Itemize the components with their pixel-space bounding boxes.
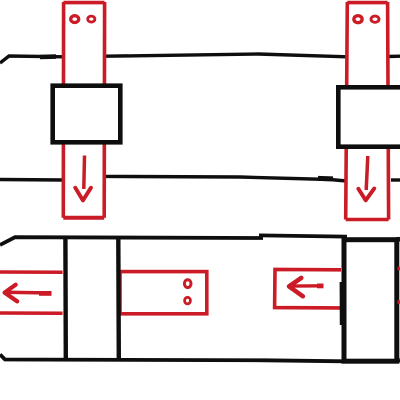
middle red tray with grommets (120, 272, 207, 314)
left feed red band (to left box) top edge (0, 270, 63, 274)
lower conveyor bottom rail far right stub (396, 358, 400, 363)
left feed arrow head (5, 285, 18, 302)
lower left black post left edge (63, 237, 68, 360)
left chute grommet 2 (88, 16, 95, 22)
upper duct bottom line left segment (0, 178, 64, 182)
right drop unit red chute body (346, 2, 389, 220)
right feed arrow head (289, 278, 303, 296)
lower conveyor top rail far right stub (396, 237, 400, 242)
right chute grommet 1 (354, 16, 362, 23)
upper duct top line left segment (0, 56, 64, 63)
right feed arrow shaft thick end (317, 283, 324, 288)
lower conveyor top rail left angled end (0, 237, 263, 245)
lower right black box (344, 240, 397, 362)
right feed arrow shaft (290, 284, 324, 288)
left chute grommet 1 (71, 16, 79, 23)
upper duct bottom line right segment (391, 178, 400, 181)
right junction box (338, 87, 400, 146)
right chute down arrow head (358, 189, 374, 201)
right feed red box (275, 269, 341, 308)
upper duct top line middle segment (106, 54, 348, 57)
left chute down arrow head (75, 188, 91, 201)
left drop unit red chute body (63, 2, 104, 218)
left junction box (53, 86, 121, 143)
right edge red dash upper (397, 267, 400, 271)
left feed arrow shaft thick end (39, 291, 52, 296)
stray stroke left of right black box (340, 282, 344, 325)
lower conveyor bottom rail (0, 355, 345, 362)
left feed red band bottom edge (0, 311, 63, 315)
upper duct bottom line thick dash (318, 176, 333, 182)
lower left black post right edge (116, 237, 121, 360)
left chute down arrow shaft (82, 156, 86, 190)
right edge red dash lower (397, 300, 400, 304)
lower conveyor top rail right part (259, 235, 347, 236)
upper duct top line thick dash (40, 54, 56, 59)
middle tray grommet lower (185, 297, 191, 304)
left feed arrow shaft (6, 291, 52, 295)
right chute down arrow shaft (366, 156, 368, 190)
upper duct top line right segment (389, 55, 400, 59)
upper duct bottom line middle segment (106, 176, 347, 181)
middle tray grommet upper (184, 280, 191, 288)
right chute grommet 2 (371, 16, 379, 22)
